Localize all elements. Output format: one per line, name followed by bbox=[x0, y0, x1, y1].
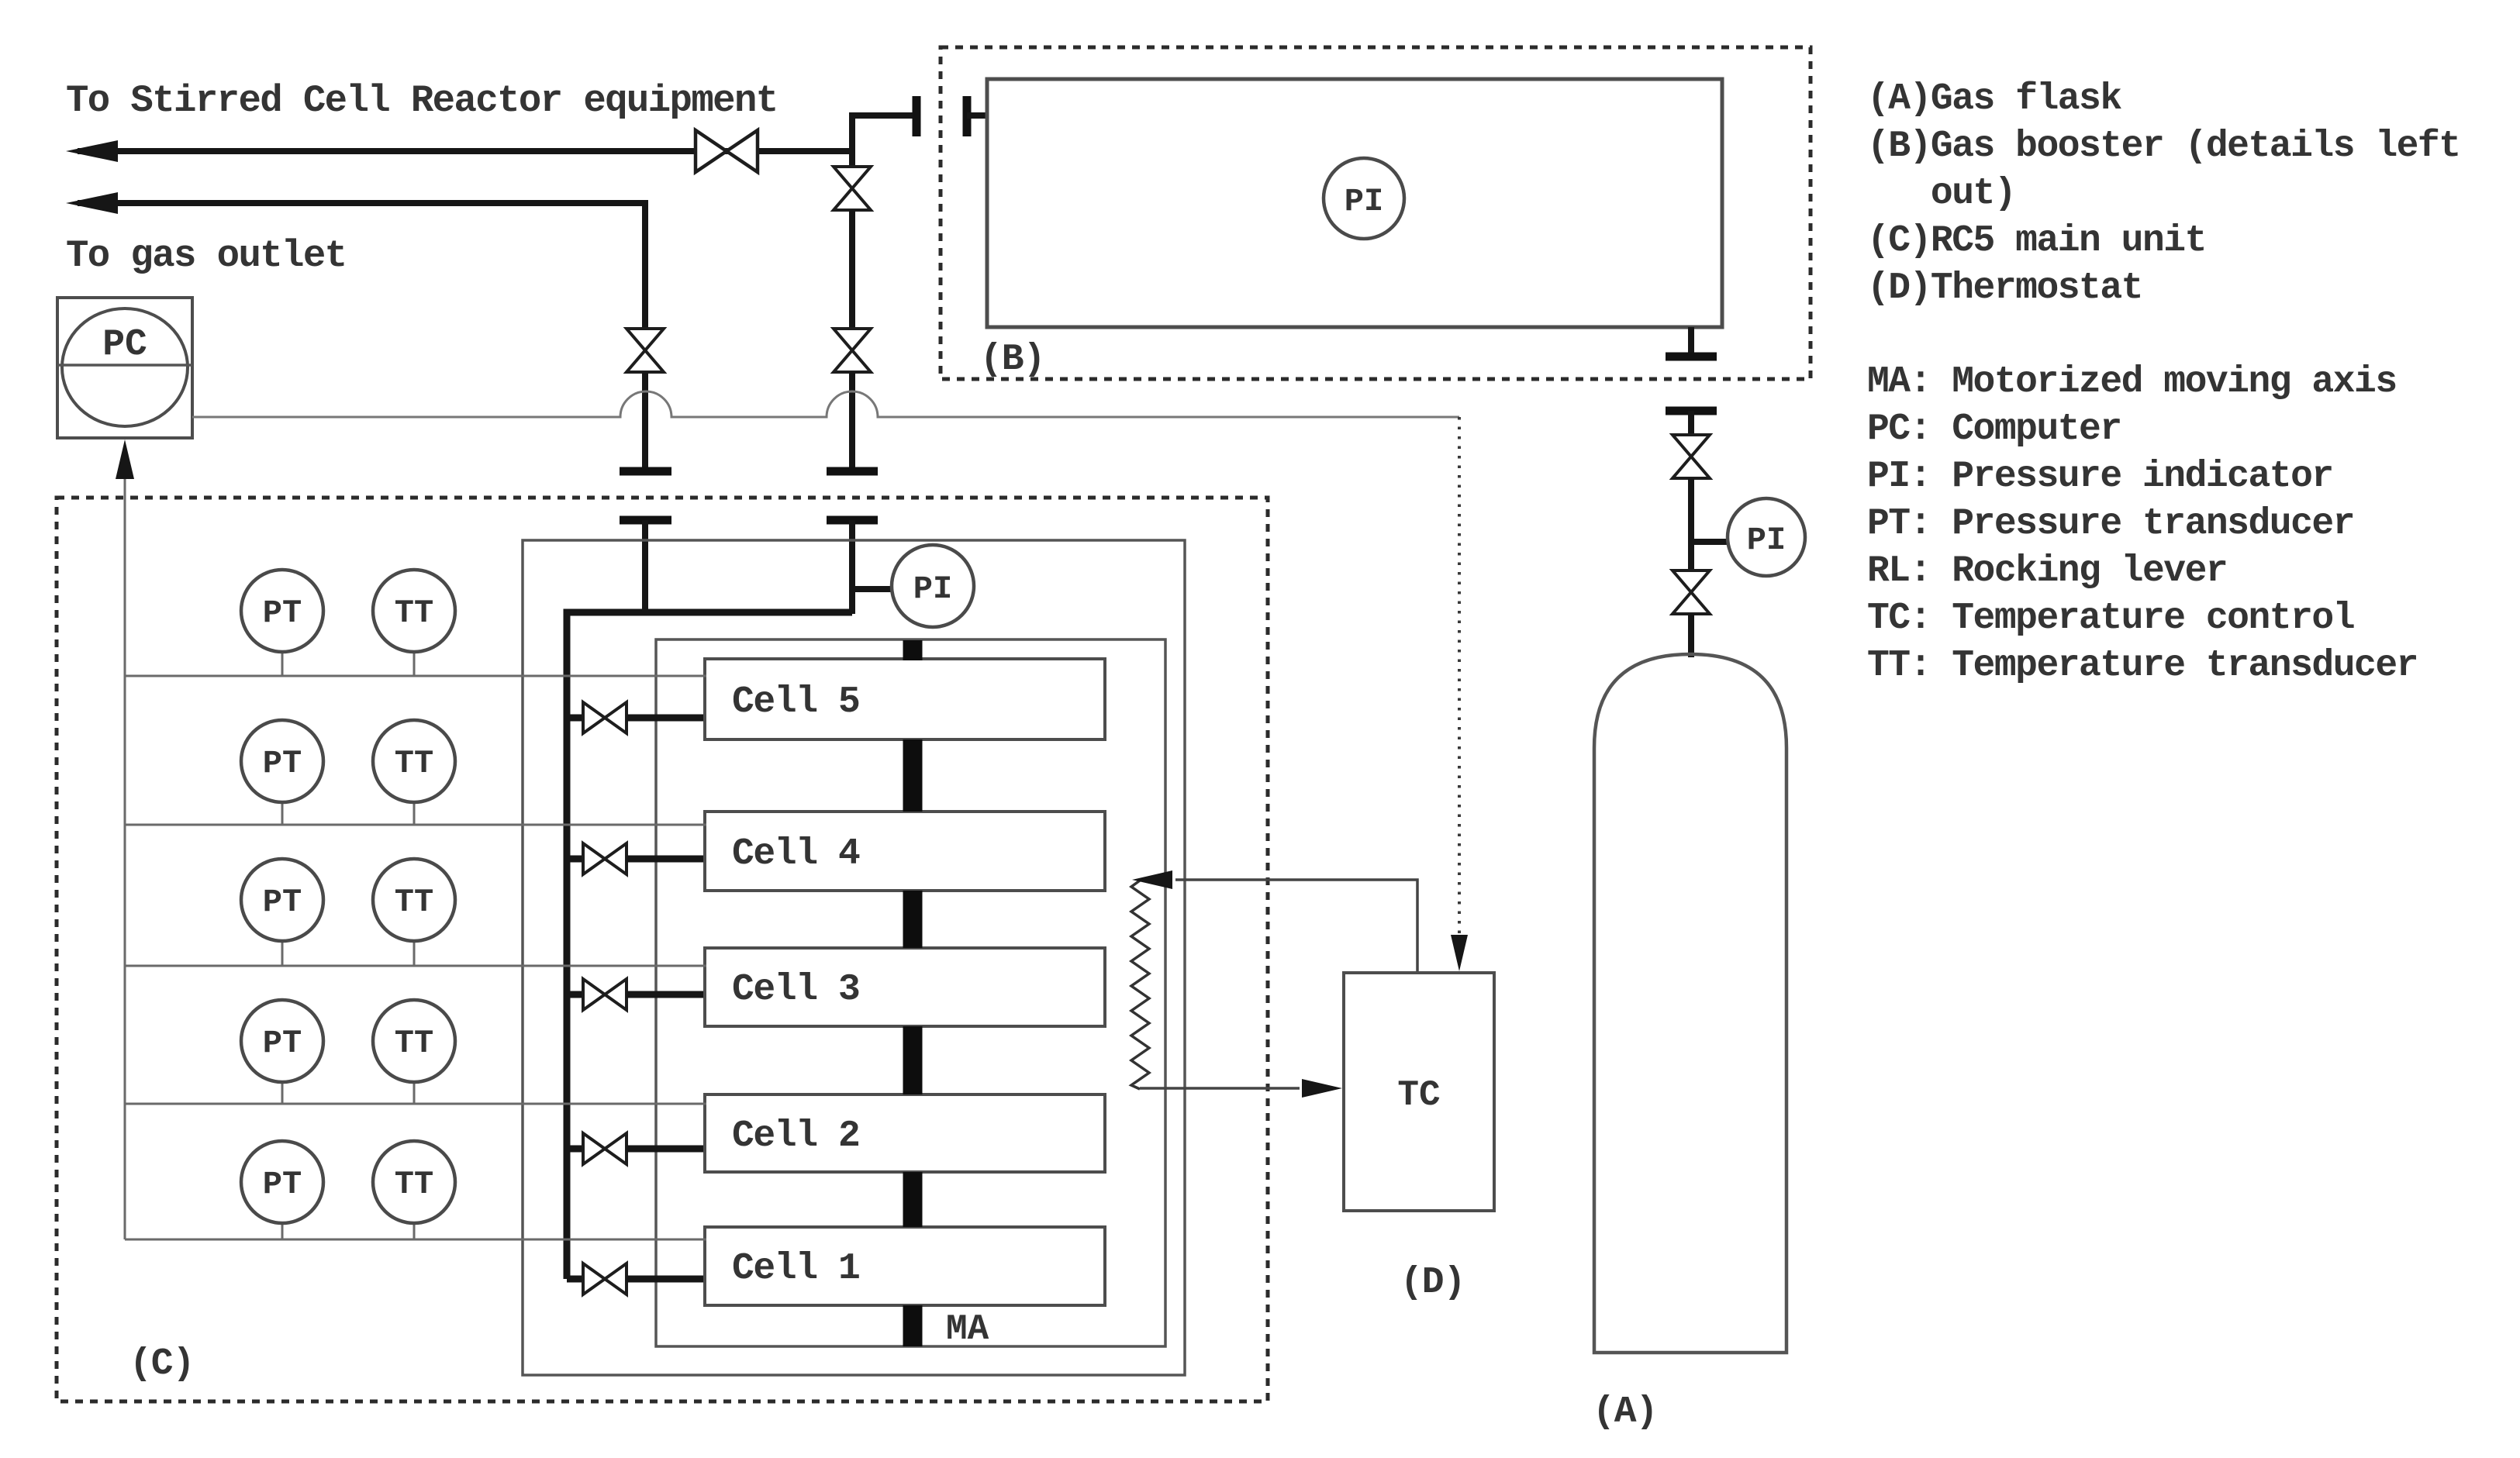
wire: flask feed stem bbox=[1688, 411, 1694, 436]
wire: manifold branch to cell 5 bbox=[567, 715, 583, 722]
svg-text:Cell 3: Cell 3 bbox=[732, 969, 859, 1011]
valve at cell 5 bbox=[583, 702, 627, 733]
cell 1 vessel bbox=[705, 1227, 1105, 1305]
svg-text:(A): (A) bbox=[1593, 1391, 1657, 1433]
pressure transducer PT (cell 2) bbox=[281, 1082, 284, 1104]
RC5 main unit outer frame bbox=[523, 540, 1185, 1375]
wire: gas outlet pipe with corner bbox=[78, 203, 645, 329]
arrowhead left (to gas outlet) bbox=[66, 192, 118, 214]
wire: stub to PI (C) bbox=[852, 586, 892, 592]
svg-text:TT: TT bbox=[395, 745, 433, 782]
svg-text:out): out) bbox=[1867, 173, 2015, 215]
arrowhead into TC top bbox=[1451, 935, 1468, 971]
wire: stub into booster body bbox=[967, 112, 989, 119]
wire: stem 2 into manifold header bbox=[849, 520, 855, 614]
capped end below (C) wall (pipe 2) bbox=[827, 516, 878, 525]
arrowhead into PC bbox=[116, 439, 134, 479]
signal row line for cell 2 bbox=[125, 1103, 706, 1105]
capped end below (C) wall bbox=[620, 516, 671, 525]
wire: stub to PI (flask) bbox=[1691, 539, 1728, 545]
pressure transducer PT (cell 3) bbox=[281, 941, 284, 966]
svg-text:RL: Rocking lever: RL: Rocking lever bbox=[1867, 550, 2227, 592]
wire: flask line middle bbox=[1688, 478, 1694, 571]
PC symbol divider bbox=[57, 364, 192, 367]
signal row line for cell 1 bbox=[125, 1239, 706, 1241]
svg-text:(B)Gas booster (details left: (B)Gas booster (details left bbox=[1867, 126, 2460, 167]
capped end at booster inlet (outside box B) bbox=[913, 96, 921, 136]
wire: manifold branch to cell 3 bbox=[567, 991, 583, 998]
svg-text:(B): (B) bbox=[980, 339, 1044, 381]
valve at cell 2 bbox=[583, 1133, 627, 1164]
svg-text:PI: PI bbox=[913, 570, 952, 608]
svg-text:(D): (D) bbox=[1400, 1262, 1465, 1304]
arrowhead left (to reactor) bbox=[66, 140, 118, 162]
svg-text:Cell 2: Cell 2 bbox=[732, 1115, 859, 1157]
wire: booster outlet stem bbox=[1688, 327, 1694, 353]
enclosure (C) dashed boundary bbox=[57, 498, 1268, 1401]
wire: instrument bus up to PC bbox=[124, 476, 126, 1239]
svg-text:PT: PT bbox=[263, 745, 302, 782]
gas flask (A) body bbox=[1594, 654, 1786, 1353]
PC symbol ellipse bbox=[62, 308, 188, 426]
pressure indicator PI (main unit) bbox=[892, 545, 974, 627]
valve at cell 1 bbox=[583, 1263, 627, 1294]
wire: manifold branch to cell 2 bbox=[567, 1146, 583, 1153]
temperature transducer TT (cell 4) bbox=[413, 802, 416, 825]
svg-text:To Stirred Cell Reactor equipm: To Stirred Cell Reactor equipment bbox=[66, 79, 778, 122]
svg-text:PI: Pressure indicator: PI: Pressure indicator bbox=[1867, 456, 2333, 498]
wire: valve to cell 3 bbox=[627, 991, 706, 998]
capped end above (C) wall (pipe 2) bbox=[827, 467, 878, 476]
wire: valve to cell 2 bbox=[627, 1146, 706, 1153]
svg-text:PT: PT bbox=[263, 1025, 302, 1062]
capped end at booster outlet (inside box B) bbox=[1666, 353, 1717, 361]
valve upper on vertical pipe 2 bbox=[834, 167, 871, 210]
svg-text:Cell 5: Cell 5 bbox=[732, 681, 859, 723]
wire: manifold header (thick) bbox=[567, 612, 852, 1279]
wire: branch up to gas booster inlet bbox=[852, 115, 913, 151]
svg-text:(D)Thermostat: (D)Thermostat bbox=[1867, 267, 2142, 309]
svg-text:TC: TC bbox=[1397, 1075, 1440, 1115]
svg-text:TT: TT bbox=[395, 884, 433, 921]
svg-text:PI: PI bbox=[1345, 183, 1383, 220]
valve at cell 3 bbox=[583, 979, 627, 1010]
wire: vertical pipe 2 middle bbox=[849, 210, 855, 329]
svg-text:TT: TT bbox=[395, 1025, 433, 1062]
wire: stem into manifold header bbox=[642, 520, 648, 614]
enclosure (B) dashed boundary bbox=[941, 47, 1811, 379]
svg-text:Cell 4: Cell 4 bbox=[732, 833, 860, 875]
svg-text:PC: Computer: PC: Computer bbox=[1867, 408, 2121, 450]
svg-text:PI: PI bbox=[1747, 522, 1786, 559]
control line TC to heater top bbox=[1175, 880, 1417, 973]
signal line PC to thermostat (hops over pipes) bbox=[192, 391, 1459, 417]
wire: valve to cell 4 bbox=[627, 856, 706, 863]
wire: valve to cell 5 bbox=[627, 715, 706, 722]
pressure indicator PI (booster) bbox=[1324, 158, 1404, 239]
wire: manifold branch to cell 1 bbox=[567, 1276, 583, 1283]
motorized moving axis MA (bar segments) bbox=[903, 640, 923, 1346]
temperature transducer TT (cell 1) bbox=[413, 1223, 416, 1239]
temperature transducer TT (cell 2) bbox=[413, 1082, 416, 1104]
rocking assembly inner frame bbox=[656, 639, 1165, 1346]
pressure transducer PT (cell 5) bbox=[281, 652, 284, 676]
valve on reactor pipe bbox=[696, 130, 758, 172]
pressure transducer PT (cell 4) bbox=[281, 802, 284, 825]
svg-text:TC: Temperature control: TC: Temperature control bbox=[1867, 598, 2354, 639]
wire: valve to cell 1 bbox=[627, 1276, 706, 1283]
wire: vertical pipe 1 lower bbox=[642, 372, 648, 468]
svg-text:Cell 1: Cell 1 bbox=[732, 1248, 859, 1290]
svg-text:(A)Gas flask: (A)Gas flask bbox=[1867, 78, 2121, 120]
arrowhead into TC left bbox=[1302, 1079, 1342, 1098]
svg-text:PT: PT bbox=[263, 1166, 302, 1203]
sensor line heater bottom to TC bbox=[1140, 1087, 1300, 1090]
capped end above (C) wall bbox=[620, 467, 671, 476]
svg-text:TT: TT bbox=[395, 1166, 433, 1203]
svg-text:To gas outlet: To gas outlet bbox=[66, 234, 346, 277]
cell 5 vessel bbox=[705, 659, 1105, 739]
thermostat TC box bbox=[1344, 973, 1494, 1211]
wire: vertical pipe 2 lower bbox=[849, 372, 855, 468]
arrowhead at heater bbox=[1132, 870, 1172, 889]
wire: vertical pipe 2 from reactor line bbox=[849, 151, 855, 167]
valve lower on flask line bbox=[1673, 570, 1710, 614]
pressure transducer PT (cell 1) bbox=[281, 1223, 284, 1239]
temperature transducer TT (cell 5) bbox=[413, 652, 416, 676]
signal row line for cell 3 bbox=[125, 965, 706, 967]
cell 4 vessel bbox=[705, 812, 1105, 891]
wire: manifold branch to cell 4 bbox=[567, 856, 583, 863]
wire: flask line to flask top bbox=[1688, 614, 1694, 657]
svg-text:PT: PT bbox=[263, 884, 302, 921]
svg-text:TT: Temperature transducer: TT: Temperature transducer bbox=[1867, 645, 2418, 687]
wire: pipe to stirred cell reactor bbox=[78, 148, 852, 154]
temperature transducer TT (cell 3) bbox=[413, 941, 416, 966]
svg-text:MA: Motorized moving axis: MA: Motorized moving axis bbox=[1867, 361, 2397, 403]
svg-text:PC: PC bbox=[102, 324, 147, 366]
svg-text:(C): (C) bbox=[129, 1343, 194, 1385]
svg-text:PT: Pressure transducer: PT: Pressure transducer bbox=[1867, 503, 2354, 545]
signal row line for cell 5 bbox=[125, 675, 706, 677]
valve on gas outlet vertical bbox=[627, 329, 664, 372]
valve at cell 4 bbox=[583, 843, 627, 874]
gas booster body bbox=[987, 79, 1722, 327]
signal row line for cell 4 bbox=[125, 824, 706, 826]
svg-text:TT: TT bbox=[395, 595, 433, 632]
pressure indicator PI (flask line) bbox=[1728, 498, 1805, 576]
cell 3 vessel bbox=[705, 948, 1105, 1026]
heater coil (zigzag) bbox=[1131, 881, 1149, 1089]
dotted control line down to TC bbox=[1458, 417, 1461, 934]
cell 2 vessel bbox=[705, 1094, 1105, 1172]
capped end at booster inlet (inside box B) bbox=[963, 96, 972, 136]
valve lower on vertical pipe 2 bbox=[834, 329, 871, 372]
valve upper on flask line bbox=[1673, 435, 1710, 478]
svg-text:(C)RC5 main unit: (C)RC5 main unit bbox=[1867, 220, 2206, 262]
capped end below box B wall bbox=[1666, 407, 1717, 415]
computer PC box bbox=[57, 298, 192, 438]
svg-text:PT: PT bbox=[263, 595, 302, 632]
svg-text:MA: MA bbox=[946, 1309, 989, 1349]
